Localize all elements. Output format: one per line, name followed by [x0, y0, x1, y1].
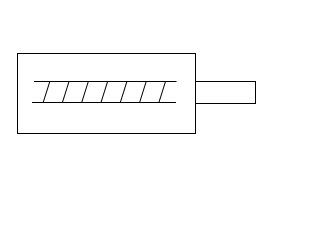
hatch stroke 2 — [62, 82, 69, 103]
hatch stroke 7 — [159, 82, 166, 103]
worm/screw bottom line — [32, 102, 176, 104]
hatch stroke 3 — [82, 82, 89, 103]
shaft (output shaft rectangle on right) — [196, 82, 256, 104]
worm/screw top line — [34, 81, 177, 83]
hatch stroke 4 — [101, 82, 108, 103]
motor body (housing rectangle) — [18, 54, 196, 134]
hatch stroke 1 — [43, 82, 50, 103]
hatch stroke 5 — [120, 82, 127, 103]
hatch stroke 6 — [140, 82, 147, 103]
